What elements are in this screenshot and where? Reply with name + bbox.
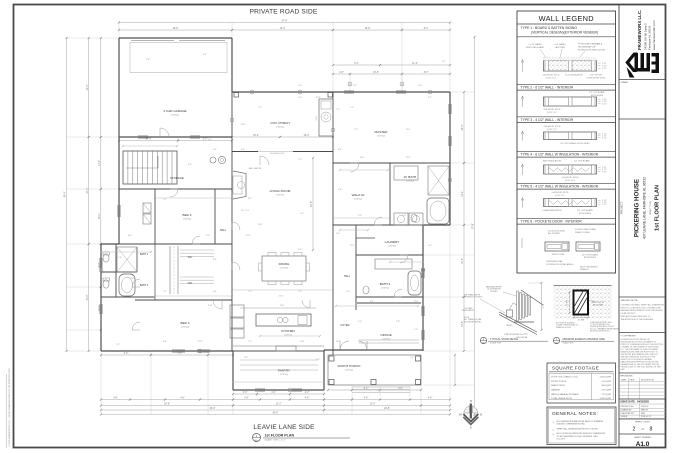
svg-text:IN ABOVE FLOOR: IN ABOVE FLOOR: [556, 326, 572, 329]
svg-text:3 CAR GARAGE: 3 CAR GARAGE: [163, 109, 186, 113]
svg-text:OCCUPY: OCCUPY: [557, 438, 566, 440]
svg-text:5'-0": 5'-0": [300, 213, 304, 215]
svg-text:PROJECT No.: PROJECT No.: [621, 406, 635, 408]
svg-text:3'-10": 3'-10": [300, 341, 305, 343]
svg-text:20" MIN: 20" MIN: [578, 320, 585, 322]
svg-text:(174'SQ): (174'SQ): [345, 369, 353, 371]
svg-text:8: 8: [650, 427, 653, 433]
svg-text:1/2" GYP BOARD: 1/2" GYP BOARD: [589, 91, 605, 94]
svg-text:12'-8": 12'-8": [336, 341, 341, 343]
svg-text:7'-2": 7'-2": [116, 344, 120, 346]
svg-text:TYPE 5 - 4 1/2" WALL W INSUL: TYPE 5 - 4 1/2" WALL W INSULATION - INTE…: [521, 185, 599, 189]
svg-text:ALL POWER: ALL POWER: [548, 232, 560, 235]
svg-text:of: of: [641, 427, 643, 431]
svg-text:87'-8": 87'-8": [473, 223, 475, 229]
svg-text:9'-0": 9'-0": [208, 139, 212, 141]
svg-text:DINING: DINING: [279, 262, 290, 266]
svg-text:11'-6": 11'-6": [406, 157, 411, 159]
svg-text:GARAGE: GARAGE: [551, 388, 561, 391]
svg-text:2025-11: 2025-11: [641, 406, 649, 408]
svg-text:TYPE 6 - POCKETS DOOR - INTE: TYPE 6 - POCKETS DOOR - INTERIOR: [521, 220, 583, 224]
svg-text:8'-4": 8'-4": [241, 149, 245, 151]
svg-text:MARK: MARK: [621, 378, 627, 381]
svg-text:VERTICAL BOARD: VERTICAL BOARD: [526, 46, 545, 49]
svg-text:8'-4": 8'-4": [338, 149, 342, 151]
svg-text:4'-8": 4'-8": [428, 398, 433, 400]
svg-text:HYDROGAP DRAINABLE: HYDROGAP DRAINABLE: [578, 42, 603, 45]
svg-text:12'-8": 12'-8": [198, 341, 203, 343]
svg-text:EXTERIOR PL/SWOODOSB: EXTERIOR PL/SWOODOSB: [578, 49, 605, 51]
svg-text:SCALE: NTS: SCALE: NTS: [563, 341, 575, 344]
svg-text:MW JR: MW JR: [641, 409, 648, 411]
svg-text:3'-0": 3'-0": [243, 392, 248, 394]
svg-text:FOYER: FOYER: [341, 323, 350, 327]
svg-text:9'-0": 9'-0": [346, 291, 350, 293]
svg-text:40'-0": 40'-0": [253, 135, 259, 137]
svg-text:KITCHEN: KITCHEN: [281, 329, 295, 333]
svg-text:5'-0": 5'-0": [118, 257, 122, 259]
svg-text:(OPTION GIF GYP.): (OPTION GIF GYP.): [587, 78, 606, 80]
svg-text:24" MIN: 24" MIN: [567, 299, 569, 306]
svg-text:20'-8": 20'-8": [311, 201, 313, 207]
svg-text:8'-4": 8'-4": [364, 388, 369, 390]
svg-text:3'-10": 3'-10": [208, 305, 213, 307]
svg-text:5'-0": 5'-0": [203, 139, 208, 141]
svg-text:5 1/2": 5 1/2": [602, 137, 607, 139]
svg-text:@ 16" O.C.: @ 16" O.C.: [546, 78, 557, 80]
svg-text:BATH 2: BATH 2: [140, 253, 149, 256]
svg-text:8'-4": 8'-4": [370, 301, 374, 303]
svg-text:@ 16" O.C.: @ 16" O.C.: [547, 129, 558, 131]
svg-text:FRONT PORCH: FRONT PORCH: [338, 364, 361, 368]
svg-text:9'-0": 9'-0": [206, 235, 210, 237]
svg-text:7'-2": 7'-2": [248, 291, 252, 293]
svg-text:2'-8": 2'-8": [396, 321, 400, 323]
svg-text:5'-0": 5'-0": [410, 357, 414, 359]
svg-text:27'-0": 27'-0": [87, 187, 89, 193]
svg-text:PANTRY: PANTRY: [278, 369, 290, 373]
svg-text:8'-4": 8'-4": [128, 235, 132, 237]
svg-text:8'-0": 8'-0": [424, 72, 429, 74]
svg-text:SHEET COUNT: SHEET COUNT: [635, 421, 651, 423]
svg-text:12'-8": 12'-8": [316, 97, 321, 99]
svg-text:FRAMEWORX LLC.: FRAMEWORX LLC.: [637, 10, 642, 50]
svg-text:ASSUMES RESPONSIBILITY FOR THE: ASSUMES RESPONSIBILITY FOR THE DESIGN: [621, 309, 663, 312]
svg-text:2'-8": 2'-8": [339, 72, 344, 74]
svg-text:NET CLEAR: NET CLEAR: [593, 303, 604, 306]
svg-text:14'-2": 14'-2": [462, 191, 464, 197]
svg-text:2x6 WOOD STUD: 2x6 WOOD STUD: [562, 177, 579, 179]
svg-text:6'-2": 6'-2": [203, 54, 207, 56]
svg-text:94'-8": 94'-8": [273, 413, 279, 415]
svg-text:8'-0" CLG: 8'-0" CLG: [241, 210, 249, 212]
svg-text:12'-8": 12'-8": [418, 85, 423, 87]
svg-text:7'-2": 7'-2": [258, 107, 262, 109]
svg-text:HOUSEWRAP (UP: HOUSEWRAP (UP: [578, 45, 596, 48]
svg-text:SCALE : 3/16" = 1'-0": SCALE : 3/16" = 1'-0": [265, 439, 286, 442]
svg-text:ALL DOORS (W) WINDOWS WITHOUT: ALL DOORS (W) WINDOWS WITHOUT DIMENSIONS: [557, 432, 607, 435]
svg-text:THE ATTENTION OF THE DESIGNER.: THE ATTENTION OF THE DESIGNER.: [621, 318, 655, 321]
svg-text:437 LEAVIE LANE, FAIRHOPE AL 3: 437 LEAVIE LANE, FAIRHOPE AL 36532: [643, 177, 647, 239]
svg-text:(174'SQ): (174'SQ): [382, 338, 390, 340]
svg-text:BATH 4: BATH 4: [380, 282, 391, 286]
svg-text:TYPE 2 - 6 1/2" WALL - INTER: TYPE 2 - 6 1/2" WALL - INTERIOR: [521, 86, 574, 90]
svg-text:GENERAL NOTES:: GENERAL NOTES:: [552, 411, 598, 417]
svg-text:OF AN PROJECT.: OF AN PROJECT.: [621, 312, 637, 315]
svg-text:7 x 12" HARDI: 7 x 12" HARDI: [528, 43, 542, 46]
svg-text:ALL DIMENSIONS ARE FROM FACE O: ALL DIMENSIONS ARE FROM FACE OF FRAMING: [557, 420, 604, 423]
svg-text:W. BATH: W. BATH: [404, 175, 417, 179]
svg-text:© COPYRIGHT: © COPYRIGHT: [621, 334, 637, 337]
svg-text:PROJECT: PROJECT: [620, 202, 624, 215]
svg-text:WITHOUT KEYS/TOOLS: WITHOUT KEYS/TOOLS: [590, 331, 611, 333]
svg-text:RISER: RISER: [506, 325, 512, 327]
svg-text:BATH 3: BATH 3: [140, 284, 149, 287]
svg-text:BED 3: BED 3: [181, 321, 190, 325]
svg-text:SHEET TITLE: SHEET TITLE: [650, 201, 652, 215]
svg-text:5'-0": 5'-0": [414, 329, 418, 331]
svg-text:(174'SQ): (174'SQ): [181, 326, 189, 328]
svg-text:SELF CENTERING: SELF CENTERING: [580, 266, 598, 268]
svg-text:5'-0": 5'-0": [353, 85, 357, 87]
svg-text:A1.0: A1.0: [636, 441, 650, 448]
svg-text:STAIR STRINGER 2x12 SYP: STAIR STRINGER 2x12 SYP: [504, 333, 528, 336]
svg-text:A2: A2: [482, 341, 484, 344]
svg-text:30'-8": 30'-8": [87, 84, 89, 90]
svg-text:4'-8": 4'-8": [113, 398, 118, 400]
svg-text:30'-0": 30'-0": [210, 408, 216, 410]
svg-text:DRAWN BY: DRAWN BY: [621, 408, 633, 411]
svg-text:1/2" GYP BOARD, BOTH SIDES: 1/2" GYP BOARD, BOTH SIDES: [560, 142, 590, 145]
svg-text:13'-2": 13'-2": [276, 404, 282, 406]
svg-text:14'-0": 14'-0": [99, 213, 101, 219]
svg-text:11'-2": 11'-2": [412, 63, 418, 65]
svg-text:HALL: HALL: [220, 229, 227, 232]
svg-text:8'-4": 8'-4": [248, 198, 252, 200]
svg-text:7x4" HARDI: 7x4" HARDI: [554, 43, 566, 46]
svg-text:A2: A2: [555, 341, 557, 344]
svg-text:LAUNDRY: LAUNDRY: [385, 240, 400, 244]
svg-text:(174'SQ): (174'SQ): [377, 135, 385, 137]
svg-text:8'-0": 8'-0": [424, 28, 429, 30]
svg-text:2,941 SQ/FT: 2,941 SQ/FT: [600, 376, 613, 378]
svg-text:5'-0": 5'-0": [298, 97, 302, 99]
svg-text:2x6 WOOD STUD: 2x6 WOOD STUD: [543, 75, 560, 77]
svg-text:WALK-IN: WALK-IN: [352, 193, 365, 197]
svg-text:(174'SQ): (174'SQ): [183, 218, 191, 220]
svg-text:8'-4": 8'-4": [163, 341, 167, 343]
svg-text:WIC: WIC: [188, 283, 193, 285]
svg-text:6'-2": 6'-2": [213, 149, 217, 151]
svg-text:SPECIFIC NOTE:: SPECIFIC NOTE:: [621, 300, 639, 302]
svg-text:12'-8": 12'-8": [246, 235, 251, 237]
svg-text:3/16"=1'-0": 3/16"=1'-0": [641, 416, 651, 418]
svg-text:STORAGE: STORAGE: [170, 176, 184, 180]
svg-text:5'-0": 5'-0": [428, 245, 432, 247]
svg-text:OFFICE: OFFICE: [380, 333, 391, 337]
svg-text:ISSUE DATE:: ISSUE DATE:: [621, 401, 636, 404]
svg-text:BOTH SIDES: BOTH SIDES: [584, 257, 597, 259]
svg-text:88'-4": 88'-4": [65, 191, 67, 197]
svg-text:04: 04: [401, 84, 403, 86]
svg-text:CONTRACTOR SHALL VERIFY ALL DI: CONTRACTOR SHALL VERIFY ALL DIMENSIONS: [621, 303, 665, 306]
svg-text:1ST FLOOR - HEAT & COOL: 1ST FLOOR - HEAT & COOL: [551, 375, 579, 378]
svg-text:15'-8": 15'-8": [365, 28, 371, 30]
svg-text:© 2025 FRAMEWORX LLC - THESE D: © 2025 FRAMEWORX LLC - THESE DRAWINGS MA…: [8, 368, 11, 447]
svg-text:18'-8": 18'-8": [384, 408, 390, 410]
svg-text:4'-2": 4'-2": [271, 392, 276, 394]
svg-text:04/23/2025: 04/23/2025: [637, 401, 650, 404]
svg-text:4'-8": 4'-8": [244, 398, 249, 400]
svg-text:REVISIONS: REVISIONS: [621, 375, 633, 377]
svg-text:RISER HEIGHT: RISER HEIGHT: [462, 310, 476, 312]
svg-text:16'-8": 16'-8": [462, 258, 464, 264]
svg-text:PROSECUTED TO THE FULL EXTENT: PROSECUTED TO THE FULL EXTENT OF THE: [621, 367, 662, 369]
svg-text:2x4 WOOD STUD: 2x4 WOOD STUD: [552, 192, 569, 194]
svg-text:2'-8": 2'-8": [316, 359, 320, 361]
svg-text:WOOD TRIM: WOOD TRIM: [552, 254, 564, 256]
svg-text:(174'SQ): (174'SQ): [280, 374, 288, 376]
svg-text:2x6 WOOD STUD: 2x6 WOOD STUD: [544, 109, 561, 111]
svg-text:E: E: [480, 413, 482, 417]
svg-text:12'-8": 12'-8": [280, 305, 285, 307]
svg-text:LEAVIE LANE SIDE: LEAVIE LANE SIDE: [253, 424, 315, 431]
svg-text:PRIOR TO CONSTRUCTION. CONTRAC: PRIOR TO CONSTRUCTION. CONTRACTORS: [621, 306, 662, 309]
svg-text:(174'SQ): (174'SQ): [354, 198, 362, 200]
svg-text:4,005 SQ/FT: 4,005 SQ/FT: [600, 398, 613, 400]
svg-text:779 SQ/FT: 779 SQ/FT: [601, 389, 612, 391]
svg-text:779 SQ/FT: 779 SQ/FT: [601, 394, 612, 396]
svg-text:117 SQ/FT: 117 SQ/FT: [601, 381, 612, 383]
svg-text:5'-0": 5'-0": [298, 85, 302, 87]
svg-text:12'-0": 12'-0": [370, 404, 376, 406]
svg-text:UNLESS OTHERWISE NOTED.: UNLESS OTHERWISE NOTED.: [557, 424, 586, 426]
svg-text:1/2" GYP BOARD: 1/2" GYP BOARD: [574, 159, 590, 162]
svg-text:7'-2": 7'-2": [248, 341, 252, 343]
svg-text:8'-4": 8'-4": [354, 63, 359, 65]
svg-text:27'-4": 27'-4": [279, 296, 284, 298]
svg-text:9'-0": 9'-0": [358, 321, 362, 323]
svg-text:8'-4": 8'-4": [213, 291, 217, 293]
svg-text:6'-2": 6'-2": [428, 97, 432, 99]
svg-text:16'-8": 16'-8": [164, 404, 170, 406]
svg-text:DOOR FLUSH IN WALL: DOOR FLUSH IN WALL: [575, 228, 597, 231]
svg-text:REAR PORCH: REAR PORCH: [551, 384, 565, 387]
svg-text:6'-2": 6'-2": [442, 61, 446, 63]
svg-text:TYPE 1 : BOARD & BATTEN SIDI: TYPE 1 : BOARD & BATTEN SIDING: [521, 26, 578, 30]
svg-text:BATT INSULATION: BATT INSULATION: [543, 159, 562, 162]
svg-text:2'-8": 2'-8": [244, 357, 248, 359]
svg-text:12'-8": 12'-8": [258, 224, 263, 226]
svg-text:CENTERING RAIL: CENTERING RAIL: [546, 260, 564, 263]
svg-text:1x4" GYP-BD: 1x4" GYP-BD: [590, 75, 603, 77]
svg-text:@ 16" O.C.: @ 16" O.C.: [565, 180, 576, 182]
svg-text:SHEET NUMBER: SHEET NUMBER: [634, 437, 651, 439]
svg-text:MASTER: MASTER: [375, 130, 389, 134]
svg-text:11'-6": 11'-6": [414, 301, 419, 303]
svg-text:8'-4": 8'-4": [213, 259, 217, 261]
svg-text:FOAM INSULATION: FOAM INSULATION: [543, 209, 562, 212]
svg-text:(174'SQ): (174'SQ): [388, 245, 396, 247]
svg-text:FRONT PORCH: FRONT PORCH: [551, 381, 567, 383]
svg-text:WHEELS: WHEELS: [580, 269, 589, 271]
svg-text:WIC: WIC: [188, 257, 193, 259]
svg-text:STAMP: STAMP: [621, 81, 629, 84]
svg-text:(174'SQ): (174'SQ): [381, 287, 389, 289]
svg-text:4'-8": 4'-8": [180, 398, 185, 400]
svg-text:459 SQ/FT: 459 SQ/FT: [601, 385, 612, 387]
svg-text:(174'SQ): (174'SQ): [276, 126, 284, 128]
svg-text:7'-2": 7'-2": [163, 291, 167, 293]
svg-text:BIG GLASS DOOR: BIG GLASS DOOR: [270, 152, 285, 155]
svg-text:8'-10": 8'-10": [543, 303, 545, 308]
svg-text:NOSING: NOSING: [490, 291, 498, 293]
svg-text:VERIFY ALL DIMENSIONS PRIOR TO: VERIFY ALL DIMENSIONS PRIOR TO WORK: [557, 427, 599, 430]
svg-text:(174'SQ): (174'SQ): [280, 267, 288, 269]
svg-text:30'-8": 30'-8": [87, 294, 89, 300]
svg-text:7'-2": 7'-2": [163, 199, 167, 201]
svg-text:(VERTICAL DESIGN)(EXTERIOR VEN: (VERTICAL DESIGN)(EXTERIOR VENEER): [531, 31, 598, 35]
svg-text:PRECAUTION ANY BROUGHT TO: PRECAUTION ANY BROUGHT TO: [621, 315, 651, 318]
svg-text:SCALE: NTS: SCALE: NTS: [490, 341, 502, 344]
svg-text:04: 04: [349, 84, 351, 86]
svg-text:5 1/2": 5 1/2": [602, 204, 607, 206]
svg-text:(174'SQ): (174'SQ): [406, 180, 414, 182]
svg-text:12'-4": 12'-4": [462, 321, 464, 327]
svg-text:DESCRIPTION: DESCRIPTION: [641, 379, 655, 381]
svg-text:11'-6": 11'-6": [406, 129, 411, 131]
svg-text:7'-2": 7'-2": [298, 291, 302, 293]
svg-text:SCALE: SCALE: [621, 415, 628, 418]
svg-text:Fairhope AL 36532: Fairhope AL 36532: [648, 25, 652, 50]
svg-text:5 1/2": 5 1/2": [602, 103, 607, 105]
svg-text:ALL RISERS EQUAL: ALL RISERS EQUAL: [464, 320, 481, 323]
svg-text:5'-0": 5'-0": [336, 233, 340, 235]
svg-text:1/2" GYP BOARD,: 1/2" GYP BOARD,: [582, 253, 599, 256]
svg-text:(174'SQ): (174'SQ): [276, 194, 284, 196]
svg-text:HALL: HALL: [344, 275, 351, 278]
svg-text:11'-6": 11'-6": [241, 124, 246, 126]
svg-text:WALL LEGEND: WALL LEGEND: [539, 14, 594, 23]
svg-text:www.frameworkllc.com: www.frameworkllc.com: [652, 20, 656, 50]
svg-text:PICKERING HOUSE: PICKERING HOUSE: [634, 179, 641, 237]
svg-text:4'-6": 4'-6": [188, 164, 192, 166]
svg-text:9'-0": 9'-0": [358, 215, 362, 217]
svg-text:TYPICAL STAIR DETAIL: TYPICAL STAIR DETAIL: [490, 337, 519, 341]
svg-text:CONTINUOUS STEEL ANGLE: CONTINUOUS STEEL ANGLE: [546, 263, 574, 266]
svg-text:7'-2": 7'-2": [354, 129, 358, 131]
svg-text:26'-8": 26'-8": [462, 124, 464, 130]
svg-text:7'-0": 7'-0": [177, 353, 182, 355]
svg-text:CHECKED BY: CHECKED BY: [621, 413, 635, 415]
svg-text:11'-6": 11'-6": [130, 278, 135, 280]
svg-text:1/2" GYP BOARD: 1/2" GYP BOARD: [577, 209, 593, 212]
svg-text:12'-8": 12'-8": [360, 157, 365, 159]
svg-text:TYPE 3 - 4 1/2" WALL - INTER: TYPE 3 - 4 1/2" WALL - INTERIOR: [521, 118, 574, 122]
svg-text:15'-8": 15'-8": [373, 72, 379, 74]
svg-text:@ 16" O.C.: @ 16" O.C.: [547, 112, 558, 114]
svg-text:N: N: [470, 399, 472, 403]
svg-text:SQUARE FOOTAGE: SQUARE FOOTAGE: [552, 365, 599, 370]
svg-text:WHEN CLOSED: WHEN CLOSED: [575, 232, 590, 234]
svg-text:4'-8": 4'-8": [305, 398, 310, 400]
svg-text:LAP/JOINT: LAP/JOINT: [555, 46, 566, 49]
svg-text:67'-8": 67'-8": [282, 21, 288, 23]
svg-text:7'-2": 7'-2": [336, 109, 340, 111]
svg-text:TYPE 4 - 6 1/2" WALL W INSUL: TYPE 4 - 6 1/2" WALL W INSULATION - INTE…: [521, 153, 599, 157]
svg-text:2'-8": 2'-8": [146, 59, 150, 61]
svg-text:5 1/2": 5 1/2": [602, 171, 607, 173]
svg-text:BOTH SIDES: BOTH SIDES: [591, 95, 604, 97]
svg-text:BALC ABOVE: BALC ABOVE: [249, 167, 262, 170]
svg-text:1st FLOOR PLAN: 1st FLOOR PLAN: [655, 185, 661, 231]
svg-text:5'-8": 5'-8": [398, 388, 403, 390]
svg-text:GRILL: GRILL: [316, 116, 318, 121]
svg-text:13'-2": 13'-2": [280, 28, 286, 30]
svg-text:24'-8": 24'-8": [146, 139, 152, 141]
svg-text:@ 16" O.C.: @ 16" O.C.: [555, 195, 566, 197]
svg-text:(174'SQ): (174'SQ): [171, 114, 179, 116]
svg-text:6'-0": 6'-0": [124, 353, 129, 355]
svg-text:W: W: [459, 413, 462, 417]
svg-text:R-21 INSULATION: R-21 INSULATION: [565, 74, 583, 77]
svg-text:SOLID BLOCKING: SOLID BLOCKING: [548, 230, 565, 232]
svg-text:PRIVATE ROAD SIDE: PRIVATE ROAD SIDE: [250, 9, 318, 16]
svg-text:5'-0": 5'-0": [350, 107, 354, 109]
svg-text:MW: MW: [641, 413, 645, 415]
svg-text:2x4 WOOD STUD: 2x4 WOOD STUD: [544, 126, 561, 128]
svg-text:BOTH SIDES: BOTH SIDES: [579, 213, 592, 215]
svg-text:13'-4": 13'-4": [99, 160, 101, 166]
svg-text:40'-0": 40'-0": [304, 135, 310, 137]
svg-text:9'-0": 9'-0": [402, 215, 406, 217]
svg-text:9'-0": 9'-0": [298, 249, 302, 251]
svg-text:BED 2: BED 2: [183, 213, 192, 217]
svg-text:11'-6": 11'-6": [350, 245, 355, 247]
svg-text:S: S: [470, 426, 472, 430]
svg-text:7'-2": 7'-2": [298, 159, 302, 161]
svg-text:COV. PORCH: COV. PORCH: [270, 121, 289, 125]
svg-text:DATE: DATE: [630, 378, 636, 381]
svg-text:1st FLOOR PLAN: 1st FLOOR PLAN: [265, 434, 295, 438]
svg-text:2: 2: [633, 427, 636, 433]
svg-text:MINIMUM EGRESS OPENING SIZE: MINIMUM EGRESS OPENING SIZE: [563, 337, 606, 341]
svg-text:4'-6": 4'-6": [338, 189, 342, 191]
svg-text:(MECH) GARAGE STORAGE: (MECH) GARAGE STORAGE: [551, 393, 579, 396]
svg-text:LAW.: LAW.: [621, 368, 626, 371]
svg-text:TOTAL UNDER ROOF: TOTAL UNDER ROOF: [551, 397, 573, 400]
svg-text:29'-8": 29'-8": [173, 28, 179, 30]
svg-text:4'-8": 4'-8": [364, 398, 369, 400]
svg-text:4'-2": 4'-2": [305, 392, 310, 394]
svg-text:LIVING ROOM: LIVING ROOM: [270, 189, 291, 193]
svg-text:5 1/2": 5 1/2": [602, 68, 607, 70]
